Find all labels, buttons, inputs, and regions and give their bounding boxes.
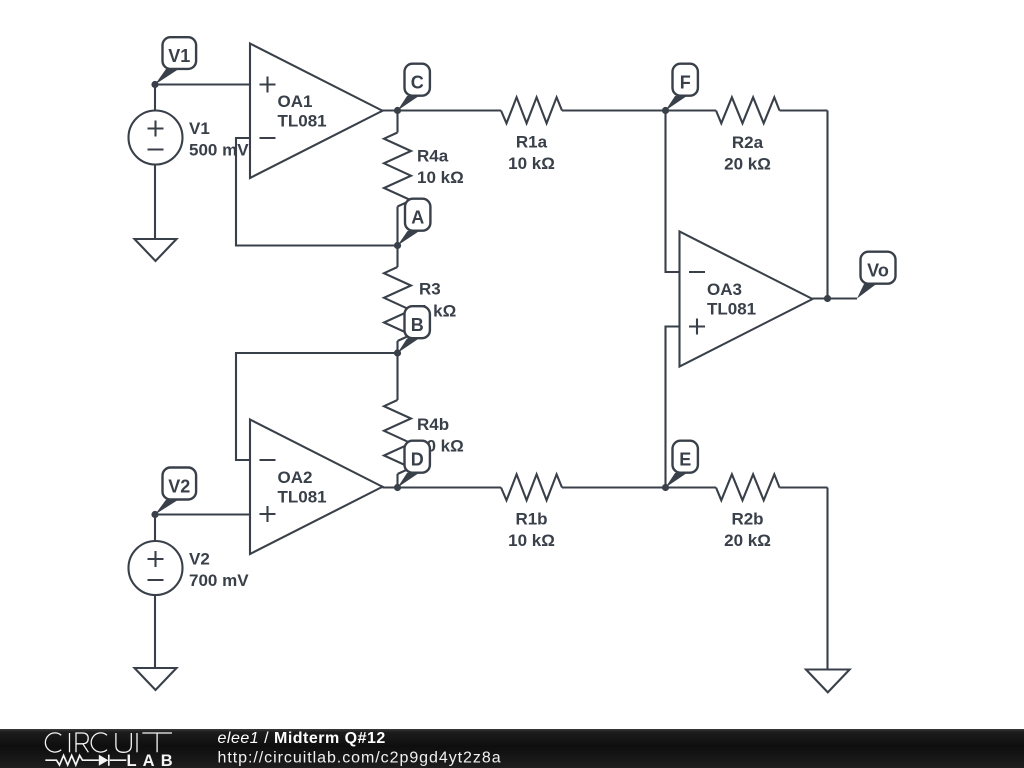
svg-text:OA2: OA2 (278, 468, 313, 487)
node V1 (151, 37, 196, 88)
svg-text:TL081: TL081 (278, 488, 327, 507)
voltage source V2 (129, 515, 250, 669)
svg-text:V1: V1 (189, 119, 210, 138)
svg-text:D: D (411, 450, 424, 470)
wire OA3 output (813, 297, 858, 299)
node D (394, 441, 430, 491)
svg-text:10 kΩ: 10 kΩ (417, 168, 464, 187)
wire V1 to OA1 + (155, 83, 249, 85)
svg-text:R1b: R1b (515, 510, 547, 529)
svg-text:TL081: TL081 (707, 300, 756, 319)
ground (R2b) (806, 670, 850, 693)
node E (662, 441, 698, 491)
svg-text:10 kΩ: 10 kΩ (508, 154, 555, 173)
svg-text:10 kΩ: 10 kΩ (508, 531, 555, 550)
node Vo (824, 252, 896, 302)
node B (394, 306, 430, 356)
svg-text:B: B (411, 315, 424, 335)
svg-text:R1a: R1a (516, 133, 548, 152)
op-amp OA1 (250, 44, 383, 179)
svg-text:R2a: R2a (732, 133, 764, 152)
svg-text:R4a: R4a (417, 147, 449, 166)
svg-text:OA1: OA1 (278, 92, 313, 111)
node A (394, 199, 431, 249)
svg-text:R4b: R4b (417, 415, 449, 434)
op-amp OA3 (680, 232, 813, 367)
resistor R2a (666, 97, 828, 298)
resistor R2b (666, 474, 828, 669)
wire OA2 output (383, 486, 502, 488)
svg-text:500 mV: 500 mV (189, 141, 249, 160)
CircuitLab logo: resistor-diode symbol (45, 755, 126, 766)
svg-text:F: F (680, 73, 691, 93)
svg-text:V1: V1 (168, 46, 190, 66)
svg-text:E: E (679, 450, 691, 470)
svg-text:V2: V2 (168, 477, 190, 497)
op-amp OA2 (250, 420, 383, 555)
CircuitLab logo: CIRCUIT (45, 733, 172, 752)
svg-text:A: A (411, 208, 424, 228)
resistor R3 (384, 246, 456, 354)
node V2 (151, 468, 196, 519)
svg-text:Vo: Vo (867, 261, 889, 281)
ground (V2) (135, 668, 177, 690)
diode triangle (99, 755, 109, 766)
voltage source V1 (129, 85, 250, 240)
wire OA1 feedback A to - input (236, 138, 398, 246)
svg-text:20 kΩ: 20 kΩ (724, 531, 771, 550)
svg-text:C: C (411, 73, 424, 93)
svg-text:OA3: OA3 (707, 280, 742, 299)
svg-text:LAB: LAB (127, 752, 179, 768)
resistor R1a (501, 97, 666, 173)
svg-text:V2: V2 (189, 550, 210, 569)
ground (V1) (135, 239, 177, 261)
svg-text:R3: R3 (419, 280, 441, 299)
svg-text:http://circuitlab.com/c2p9gd4y: http://circuitlab.com/c2p9gd4yt2z8a (218, 750, 502, 767)
node C (394, 64, 430, 114)
wire OA1 output (383, 109, 502, 111)
wire OA2 feedback B to - input (236, 353, 398, 460)
svg-text:TL081: TL081 (278, 112, 327, 131)
node F (662, 64, 698, 114)
svg-text:R2b: R2b (731, 510, 763, 529)
resistor R4a (384, 111, 464, 246)
resistor R1b (501, 474, 666, 550)
resistor R4b (384, 353, 464, 488)
wire F to OA3 - input (666, 111, 679, 273)
wire E to OA3 + input (666, 327, 679, 488)
svg-text:700 mV: 700 mV (189, 571, 249, 590)
svg-text:elee1 / Midterm Q#12: elee1 / Midterm Q#12 (218, 730, 386, 747)
wire V2 to OA2 + (155, 513, 249, 515)
svg-text:20 kΩ: 20 kΩ (724, 155, 771, 174)
